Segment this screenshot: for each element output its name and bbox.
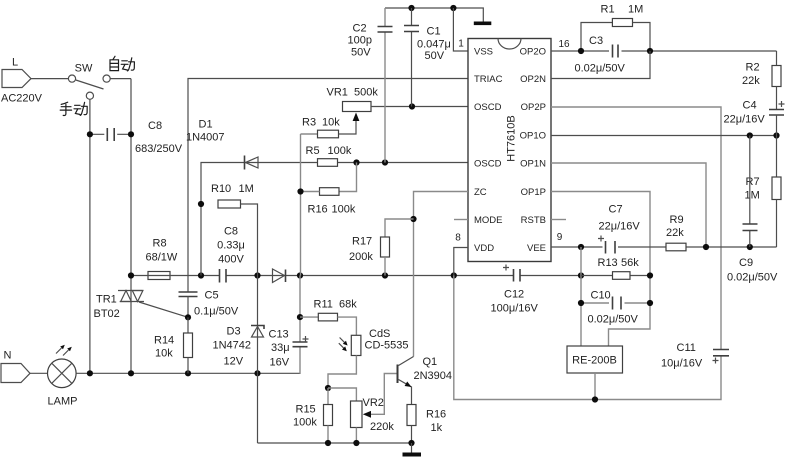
svg-text:33μ: 33μ xyxy=(271,342,290,354)
capacitor C7 xyxy=(598,236,615,254)
label R1 1M xyxy=(601,4,644,16)
svg-text:R16: R16 xyxy=(308,204,328,216)
svg-text:22μ/16V: 22μ/16V xyxy=(724,114,766,126)
label R15 100k xyxy=(293,404,317,429)
wire bottom rail xyxy=(258,442,412,444)
label TR1 BT02 xyxy=(94,294,120,321)
svg-text:LAMP: LAMP xyxy=(48,396,78,408)
op-amp U1 HT7610B IC body xyxy=(468,39,551,262)
svg-text:1M: 1M xyxy=(239,183,254,195)
svg-text:OSCD: OSCD xyxy=(474,102,502,113)
svg-text:R2: R2 xyxy=(746,62,760,74)
svg-text:22μ/16V: 22μ/16V xyxy=(599,221,641,233)
svg-text:R14: R14 xyxy=(154,335,174,347)
node RE bottom junction xyxy=(592,396,598,402)
svg-text:100k: 100k xyxy=(332,204,356,216)
resistor R3 xyxy=(301,119,357,138)
svg-text:10k: 10k xyxy=(155,348,173,360)
svg-text:R16: R16 xyxy=(426,409,446,421)
node bottom rail junctions xyxy=(325,440,415,446)
label C8 0.33u 400V xyxy=(217,226,245,266)
label C9 0.02u/50V xyxy=(727,257,778,284)
svg-text:1M: 1M xyxy=(628,4,643,16)
diode D1 xyxy=(201,156,468,276)
label CdS CD-5535 xyxy=(365,328,409,352)
resistor R14 xyxy=(184,317,193,373)
node lamp rail junctions xyxy=(87,370,261,376)
node top rail junctions xyxy=(408,5,456,11)
wire main column x131 xyxy=(130,79,132,374)
label C11 10u/16V xyxy=(661,342,703,370)
svg-text:CD-5535: CD-5535 xyxy=(365,340,409,352)
node R16 junction xyxy=(297,188,303,194)
svg-text:0.1μ/50V: 0.1μ/50V xyxy=(194,306,239,318)
label C8 683/250V xyxy=(135,120,183,155)
wire R3/R16 column x300 xyxy=(300,134,302,276)
capacitor C1 xyxy=(404,8,419,107)
svg-text:MODE: MODE xyxy=(474,215,503,226)
svg-text:C3: C3 xyxy=(589,35,603,47)
wire bottom loop xyxy=(454,276,721,400)
label R16 100k xyxy=(308,204,356,216)
svg-text:C9: C9 xyxy=(739,257,753,269)
svg-text:ZC: ZC xyxy=(474,187,487,198)
RSTB stub xyxy=(551,219,566,221)
svg-text:HT7610B: HT7610B xyxy=(505,115,517,161)
svg-text:400V: 400V xyxy=(218,254,244,266)
potentiometer VR2 xyxy=(328,374,397,444)
svg-text:100k: 100k xyxy=(293,417,317,429)
label R5 100k xyxy=(306,145,352,157)
transistor Q1 xyxy=(398,357,414,405)
svg-text:C12: C12 xyxy=(504,289,524,301)
label R14 10k xyxy=(154,335,174,360)
svg-text:Q1: Q1 xyxy=(423,356,438,368)
svg-text:OSCD: OSCD xyxy=(474,159,502,170)
svg-text:1N4007: 1N4007 xyxy=(186,132,225,144)
svg-text:R17: R17 xyxy=(352,236,372,248)
capacitor C13 xyxy=(293,276,309,374)
svg-text:0.33μ: 0.33μ xyxy=(217,240,245,252)
switch SW xyxy=(68,75,110,99)
sensor RE-200B xyxy=(567,346,623,400)
svg-text:R9: R9 xyxy=(670,214,684,226)
svg-text:C8: C8 xyxy=(148,120,162,132)
node OP2O junctions xyxy=(578,48,653,54)
wire CdS bottom jog xyxy=(328,356,356,389)
node VEE line junctions xyxy=(578,244,753,250)
svg-text:200k: 200k xyxy=(349,251,373,263)
svg-text:0.047μ: 0.047μ xyxy=(417,39,451,51)
wire OP2O net xyxy=(551,50,777,52)
terminal L xyxy=(2,70,68,88)
label D3 1N4742 12V xyxy=(213,326,252,368)
ground top xyxy=(474,22,492,26)
svg-text:500k: 500k xyxy=(354,87,378,99)
svg-text:OP2O: OP2O xyxy=(520,47,546,58)
wire top ground rail xyxy=(385,8,483,22)
svg-text:50V: 50V xyxy=(351,47,371,59)
svg-text:R7: R7 xyxy=(746,176,760,188)
svg-text:RE-200B: RE-200B xyxy=(572,355,617,367)
ground bottom xyxy=(403,443,422,457)
wire VEE/R9 line xyxy=(551,246,777,248)
wire OP1N net xyxy=(551,163,706,247)
svg-text:R1: R1 xyxy=(601,4,615,16)
svg-text:R5: R5 xyxy=(306,145,320,157)
svg-text:0.02μ/50V: 0.02μ/50V xyxy=(727,272,778,284)
svg-text:100k: 100k xyxy=(328,145,352,157)
node gate junction xyxy=(185,314,191,320)
wire OP2N net xyxy=(551,51,650,79)
svg-text:1: 1 xyxy=(458,39,464,50)
svg-text:N: N xyxy=(4,350,12,362)
svg-text:OP1N: OP1N xyxy=(520,159,546,170)
label C10 0.02u/50V xyxy=(588,290,639,326)
svg-text:D1: D1 xyxy=(199,119,213,131)
svg-text:100μ/16V: 100μ/16V xyxy=(491,303,539,315)
wire VEE column x581 xyxy=(580,247,582,346)
svg-text:12V: 12V xyxy=(224,356,244,368)
svg-text:683/250V: 683/250V xyxy=(135,143,183,155)
resistor R7 xyxy=(772,136,781,248)
wire OP1O net xyxy=(551,135,777,137)
label C13 33u 16V xyxy=(269,329,290,369)
resistor R16 100k xyxy=(301,163,357,196)
svg-text:VR2: VR2 xyxy=(363,397,384,409)
svg-text:1M: 1M xyxy=(745,190,760,202)
label 自动 xyxy=(110,56,134,71)
label R16 1k xyxy=(426,409,446,435)
svg-text:RSTB: RSTB xyxy=(521,215,546,226)
svg-text:C1: C1 xyxy=(427,26,441,38)
svg-text:TRIAC: TRIAC xyxy=(474,74,503,85)
node rail junctions xyxy=(128,272,584,278)
svg-text:8: 8 xyxy=(455,233,461,244)
svg-text:9: 9 xyxy=(557,232,563,243)
resistor R13 xyxy=(581,272,650,280)
svg-text:R11: R11 xyxy=(314,299,333,311)
svg-text:1k: 1k xyxy=(431,422,443,434)
svg-text:OP2P: OP2P xyxy=(521,102,546,113)
svg-text:22k: 22k xyxy=(742,75,760,87)
IC pin labels left xyxy=(474,47,503,255)
node R13/C10 junctions xyxy=(578,272,653,306)
svg-text:OP1O: OP1O xyxy=(520,131,546,142)
svg-text:D3: D3 xyxy=(227,326,241,338)
label R2 22k xyxy=(742,62,760,88)
label Q1 2N3904 xyxy=(414,356,453,382)
svg-text:0.02μ/50V: 0.02μ/50V xyxy=(575,63,626,75)
label C5 0.1u/50V xyxy=(194,290,239,318)
label VR1 500k xyxy=(327,87,379,99)
MODE stub xyxy=(454,219,468,221)
resistor R11 xyxy=(300,313,356,335)
svg-text:R3: R3 xyxy=(302,117,316,129)
svg-text:VEE: VEE xyxy=(527,243,546,254)
label VR2 220k xyxy=(363,397,395,433)
svg-text:VR1: VR1 xyxy=(327,87,348,99)
svg-text:R15: R15 xyxy=(296,404,316,416)
wire lamp rail xyxy=(76,372,300,374)
svg-text:50V: 50V xyxy=(425,50,445,62)
zener D3 xyxy=(251,276,264,374)
IC pin labels right xyxy=(520,47,547,255)
node C8-switch junction xyxy=(87,131,134,137)
capacitor C11 xyxy=(713,350,730,364)
svg-text:C4: C4 xyxy=(743,100,757,112)
wire OP1P net xyxy=(551,192,650,347)
terminal N xyxy=(1,364,48,383)
resistor R8 xyxy=(148,272,170,280)
triac TR1 xyxy=(118,291,188,318)
svg-text:SW: SW xyxy=(75,63,93,75)
capacitor C5 xyxy=(179,292,198,317)
svg-text:10k: 10k xyxy=(322,117,340,129)
svg-text:68/1W: 68/1W xyxy=(146,252,178,264)
label R11 68k xyxy=(314,299,358,311)
svg-text:68k: 68k xyxy=(339,299,357,311)
svg-text:22k: 22k xyxy=(666,227,684,239)
label C2 100p 50V xyxy=(348,23,372,59)
svg-text:C5: C5 xyxy=(205,290,219,302)
wire manual branch xyxy=(89,99,91,373)
capacitor C12 xyxy=(503,265,520,282)
node ZC-R17 junction xyxy=(410,216,416,222)
wire VSS pin to ground rail xyxy=(453,8,468,51)
node VR1-C1 junction xyxy=(409,103,415,109)
wire main rail y275.5 xyxy=(131,275,581,277)
resistor R15 xyxy=(324,388,333,443)
resistor R2 xyxy=(772,51,781,110)
svg-text:C10: C10 xyxy=(591,290,611,302)
label 手动 xyxy=(60,102,87,115)
label R9 22k xyxy=(666,214,684,239)
svg-text:100p: 100p xyxy=(348,35,372,47)
label C3 0.02u/50V xyxy=(575,35,626,75)
label C4 22u/16V xyxy=(724,100,766,126)
wire VDD pin xyxy=(454,248,468,276)
label R8 68/1W xyxy=(146,238,178,264)
node C13 column junctions xyxy=(297,314,303,320)
diode rectifier on rail xyxy=(273,269,286,283)
svg-text:16: 16 xyxy=(558,39,570,50)
svg-text:0.02μ/50V: 0.02μ/50V xyxy=(588,314,639,326)
resistor R9 xyxy=(666,243,686,251)
svg-text:C13: C13 xyxy=(269,329,289,341)
label C1 0.047u 50V xyxy=(417,26,451,63)
svg-text:BT02: BT02 xyxy=(94,308,120,320)
capacitor C8 683/250V xyxy=(90,128,131,141)
resistor R17 xyxy=(381,219,414,276)
svg-text:R13: R13 xyxy=(598,257,618,269)
svg-text:OP1P: OP1P xyxy=(521,187,546,198)
resistor R10 xyxy=(218,200,258,276)
label R17 200k xyxy=(349,236,373,264)
svg-text:C8: C8 xyxy=(224,226,238,238)
capacitor C2 xyxy=(378,8,393,163)
node R5 line junctions xyxy=(353,159,388,165)
capacitor C3 xyxy=(613,45,619,58)
svg-text:16V: 16V xyxy=(270,357,290,369)
wire OP2P to C11 xyxy=(551,107,721,350)
svg-text:10μ/16V: 10μ/16V xyxy=(661,358,703,370)
node R15/VR2 junction xyxy=(325,385,331,391)
resistor R5 xyxy=(318,159,338,167)
label C7 22u/16V xyxy=(599,204,641,233)
label R10 1M xyxy=(211,183,254,195)
svg-text:56k: 56k xyxy=(621,257,639,269)
svg-text:AC220V: AC220V xyxy=(1,93,43,105)
svg-text:L: L xyxy=(12,57,18,69)
wire switch to node xyxy=(110,78,131,80)
resistor R16 xyxy=(407,405,416,444)
svg-text:C2: C2 xyxy=(353,23,367,35)
label R7 1M xyxy=(745,176,760,202)
svg-text:TR1: TR1 xyxy=(96,294,117,306)
potentiometer VR1 xyxy=(343,102,469,122)
svg-text:1N4742: 1N4742 xyxy=(213,340,252,352)
wire ZC net to Q1 collector xyxy=(414,192,469,357)
photoresistor CdS xyxy=(339,335,361,355)
svg-text:C11: C11 xyxy=(677,342,696,354)
capacitor C10 xyxy=(581,297,650,310)
svg-text:R10: R10 xyxy=(211,183,231,195)
capacitor C4 xyxy=(769,101,785,136)
node OP1O junctions xyxy=(747,132,780,138)
label D1 1N4007 xyxy=(186,119,225,144)
wire TRIAC pin to gate column xyxy=(188,79,468,293)
label R3 10k xyxy=(302,117,340,129)
svg-text:R8: R8 xyxy=(153,238,167,250)
capacitor C8 0.33u 400V xyxy=(220,269,227,283)
svg-text:VDD: VDD xyxy=(474,243,494,254)
node D1 column junctions xyxy=(198,201,204,207)
capacitor C9 xyxy=(743,136,758,248)
resistor R1 xyxy=(581,19,650,52)
svg-text:2N3904: 2N3904 xyxy=(414,370,453,382)
svg-text:VSS: VSS xyxy=(474,47,493,58)
svg-text:OP2N: OP2N xyxy=(520,74,546,85)
lamp LAMP xyxy=(48,345,77,388)
svg-text:CdS: CdS xyxy=(369,328,390,340)
svg-text:220k: 220k xyxy=(370,421,394,433)
label R13 56k xyxy=(598,257,640,269)
wire D3 column to bottom rail xyxy=(257,373,259,443)
svg-text:C7: C7 xyxy=(609,204,623,216)
label C12 100u/16V xyxy=(491,289,539,315)
